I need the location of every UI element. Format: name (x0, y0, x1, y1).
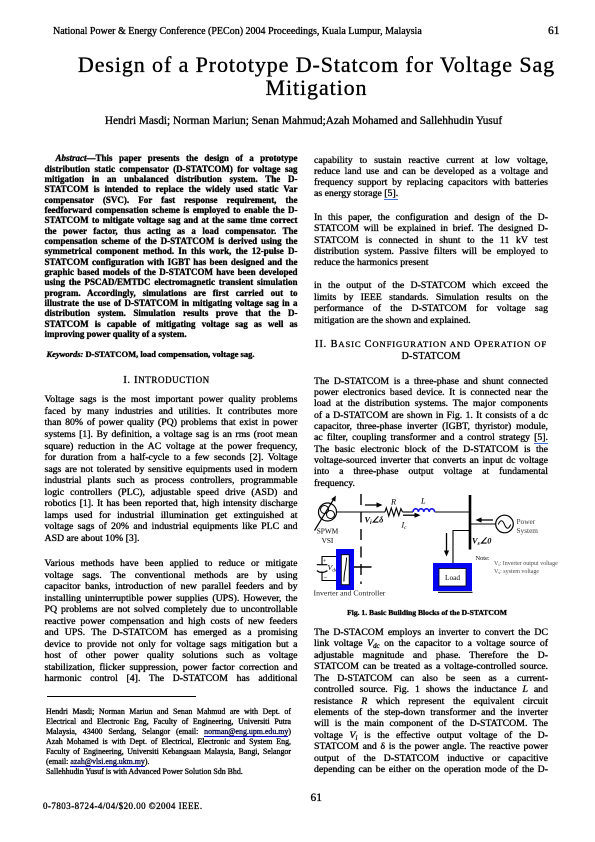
svg-text:Ic: Ic (401, 521, 408, 532)
wire power system to bus (471, 523, 496, 525)
footnote rule (47, 696, 196, 697)
footnote (46, 707, 291, 778)
wire main horizontal (337, 511, 386, 513)
svg-text:Note:: Note: (476, 555, 490, 562)
stub from inverter box (354, 566, 372, 568)
heading II (314, 339, 548, 362)
inverter blue box (336, 549, 354, 590)
wire inductor-bus (435, 511, 470, 513)
SPWM arrow diagonal (315, 500, 334, 531)
svg-text:Vs: system voltage: Vs: system voltage (494, 569, 539, 575)
right column p1 (314, 155, 548, 199)
intro p1 (45, 394, 298, 544)
svg-text:Vs∠0: Vs∠0 (472, 537, 491, 548)
svg-text:SPWM: SPWM (317, 527, 339, 536)
header left (53, 26, 473, 37)
load box (433, 563, 472, 591)
SPWM VSI source circle (319, 503, 337, 521)
arrow left toward bus (479, 519, 493, 521)
intro p2 (45, 558, 298, 685)
heading I (40, 375, 293, 386)
FIGURE 1 (308, 486, 560, 604)
dashed line (360, 494, 362, 584)
svg-text:Load: Load (445, 573, 460, 582)
right column p3 (314, 280, 548, 326)
svg-text:Power: Power (517, 517, 536, 526)
svg-text:System: System (517, 526, 539, 535)
title (38, 53, 595, 100)
svg-text:R: R (390, 498, 396, 507)
right column p4 (314, 376, 548, 489)
header page number (548, 25, 560, 36)
figure caption (310, 608, 544, 617)
keywords (47, 349, 300, 359)
bottom page number (311, 793, 322, 803)
right column p5 (314, 627, 548, 776)
wire bus to load (L shape) (453, 531, 470, 564)
svg-text:L: L (420, 497, 426, 506)
capacitor plates (317, 564, 328, 566)
bus bar (469, 495, 472, 550)
abstract (45, 153, 298, 339)
wire resistor-inductor (403, 511, 414, 513)
svg-text:VSI: VSI (322, 536, 334, 545)
arrow right below wire (Ic) (403, 514, 417, 516)
authors (38, 116, 569, 127)
ISBN line (43, 801, 203, 811)
inductor L (413, 509, 435, 512)
svg-text:−: − (324, 574, 328, 582)
arrow right above wire (365, 504, 379, 506)
svg-text:Inverter and Controller: Inverter and Controller (314, 589, 386, 598)
svg-text:Vi∠δ: Vi∠δ (365, 516, 384, 527)
dc source loop wires (322, 557, 336, 565)
resistor R zigzag (385, 508, 403, 516)
power system circle (496, 515, 514, 533)
right column p2 (314, 212, 548, 267)
arrow down to load (446, 533, 448, 553)
load shadow (438, 591, 473, 593)
svg-text:Vi: Inverter output voltage: Vi: Inverter output voltage (494, 561, 558, 567)
svg-text:+: + (323, 558, 327, 565)
